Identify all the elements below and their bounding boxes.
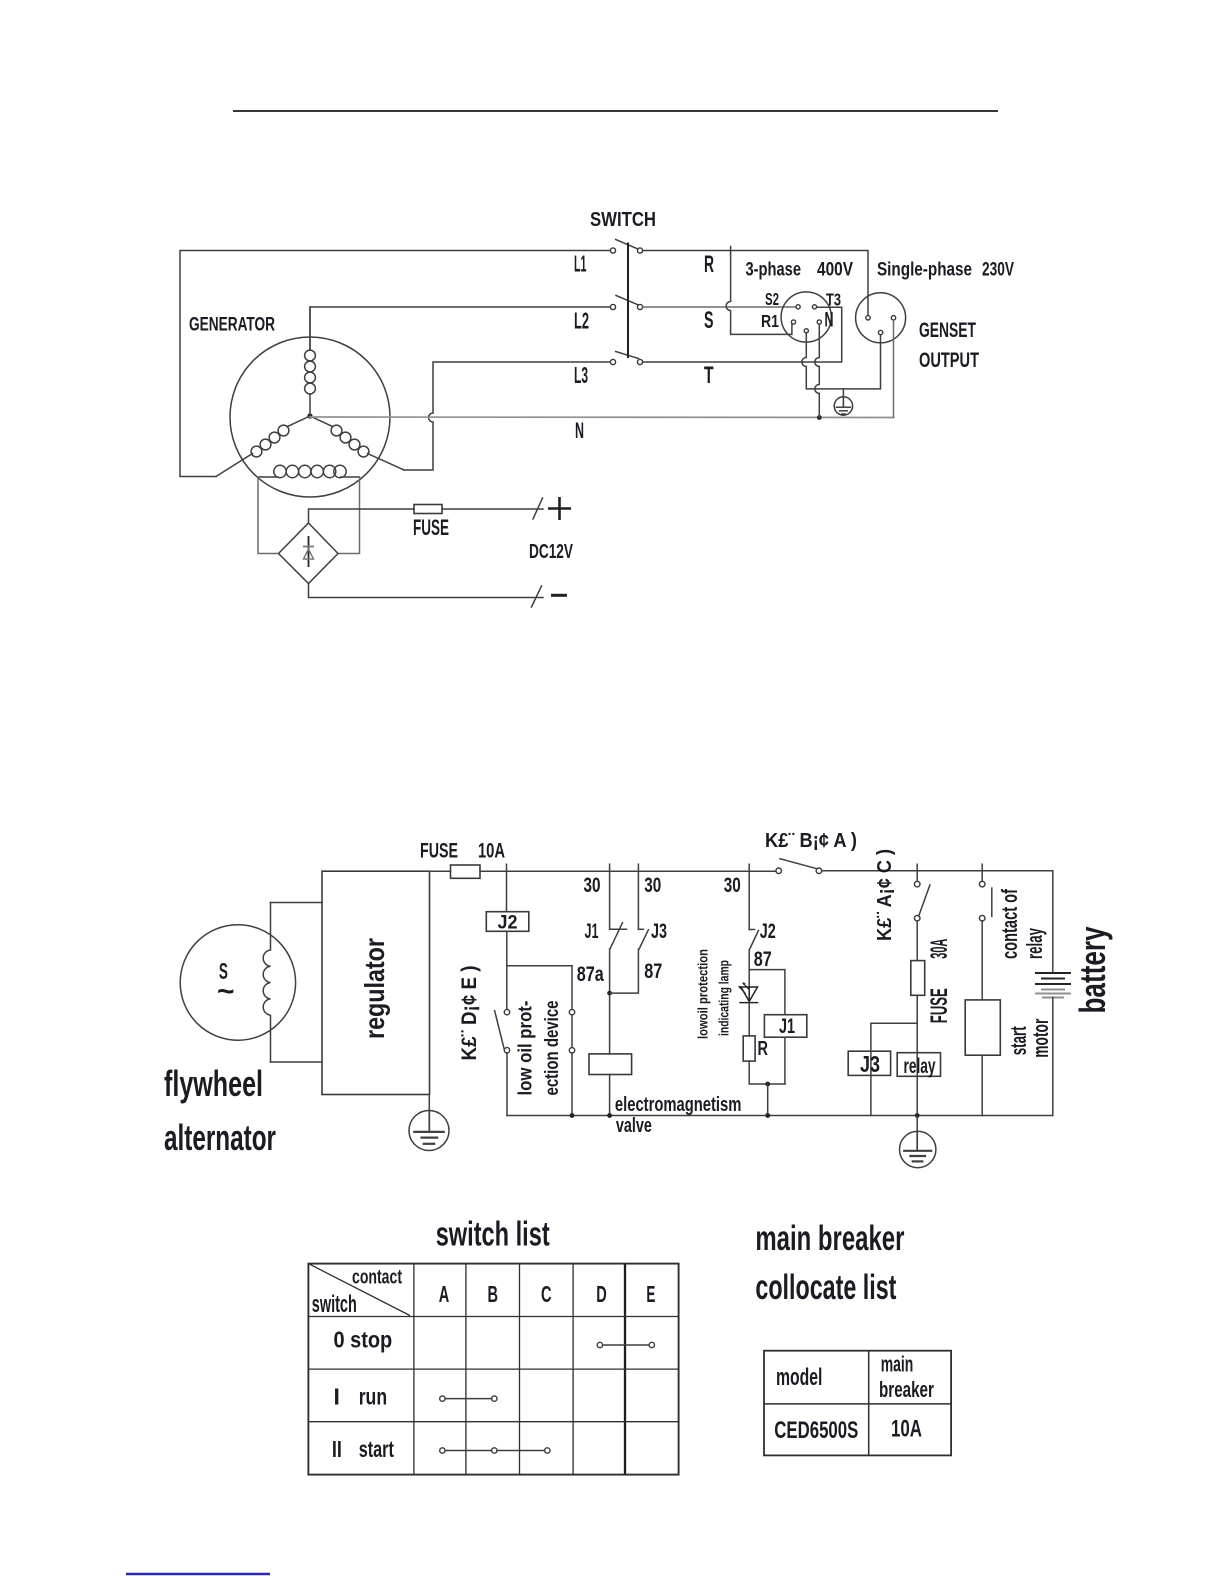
svg-text:J1: J1: [779, 1015, 795, 1038]
node: star point junction: [307, 413, 312, 418]
svg-text:S: S: [704, 307, 714, 334]
svg-text:J3: J3: [860, 1051, 880, 1077]
relay coil J1 box: [764, 1015, 806, 1037]
svg-text:alternator: alternator: [164, 1117, 276, 1158]
svg-text:30A: 30A: [926, 939, 953, 959]
svg-text:flywheel: flywheel: [164, 1063, 263, 1104]
winding W2 lower-left coil: [216, 416, 310, 477]
wire fuse down to rail: [916, 995, 918, 1115]
wire K(A) to fuse: [916, 921, 918, 961]
pin E: [804, 329, 808, 333]
wire battery top: [1052, 871, 1054, 973]
svg-text:contact: contact: [352, 1267, 402, 1289]
wire device down: [571, 1053, 573, 1116]
LED arrows: [738, 982, 749, 993]
svg-text:collocate list: collocate list: [755, 1268, 896, 1307]
svg-text:A: A: [439, 1281, 450, 1307]
winding W3 lower-right coil: [310, 416, 404, 470]
svg-text:motor: motor: [1028, 1018, 1053, 1057]
svg-text:E: E: [646, 1281, 655, 1307]
wire E drop with hop over T: [802, 333, 881, 389]
wire rail to ground: [916, 1116, 918, 1133]
svg-text:87: 87: [754, 947, 772, 971]
svg-text:battery: battery: [1072, 927, 1113, 1014]
wire top rail right: [822, 870, 1053, 872]
svg-text:230V: 230V: [982, 260, 1014, 281]
wire R1 drop with hop over S: [726, 247, 792, 335]
link run A-B: [440, 1396, 497, 1401]
switch K(D) contact: [495, 1009, 510, 1053]
svg-text:regulator: regulator: [359, 938, 390, 1039]
wire L2 from top coil: [310, 307, 611, 350]
svg-text:low oil prot-: low oil prot-: [516, 1001, 537, 1096]
svg-text:10A: 10A: [891, 1416, 922, 1443]
ground E2 symbol: [409, 1111, 449, 1151]
svg-text:J1: J1: [585, 919, 599, 943]
fuse F1 body: [414, 505, 442, 514]
svg-text:lowoil protection: lowoil protection: [694, 949, 710, 1039]
svg-text:S2: S2: [765, 289, 779, 309]
start motor M box: [965, 1000, 1000, 1055]
LED lamp symbol: [740, 970, 758, 1003]
svg-text:R1: R1: [761, 311, 779, 331]
wire R down and parallel bottom: [749, 1061, 785, 1084]
fuse F3 30A body: [911, 961, 925, 996]
svg-text:K£¨ D¡¢ E ): K£¨ D¡¢ E ): [458, 966, 481, 1061]
wire S: [643, 306, 797, 308]
svg-text:C: C: [541, 1281, 552, 1307]
breaker table grid: [764, 1351, 951, 1456]
svg-text:breaker: breaker: [879, 1377, 934, 1402]
node N junction: [817, 415, 822, 420]
wire J1 branch down: [609, 949, 611, 1054]
switch list table grid: [308, 1264, 678, 1475]
svg-text:FUSE: FUSE: [413, 515, 449, 540]
wire battery bottom: [1052, 998, 1054, 1116]
switch S1 tie bar: [627, 244, 629, 358]
wire motor to rail: [981, 1055, 983, 1115]
resistor R body: [743, 1036, 755, 1061]
pin T3: [812, 305, 816, 309]
svg-text:T: T: [704, 362, 714, 389]
wire N from star point: [310, 416, 894, 419]
switch S1 pole L1: [610, 240, 642, 254]
svg-text:87a: 87a: [577, 962, 605, 986]
svg-text:30: 30: [584, 873, 601, 897]
minus sign: [551, 594, 567, 597]
switch S1 pole L3: [610, 352, 642, 365]
wire device top: [571, 966, 573, 1010]
fuse F2 10A body: [451, 865, 481, 878]
svg-text:valve: valve: [616, 1115, 652, 1137]
wire earth tap: [842, 389, 844, 397]
wire J2 box down: [506, 931, 508, 1009]
svg-text:OUTPUT: OUTPUT: [919, 348, 979, 372]
svg-text:R: R: [704, 251, 714, 278]
wire X2 right pin to N: [893, 320, 895, 418]
switch K(A) contact: [914, 881, 930, 921]
pin X2 right: [891, 316, 895, 320]
svg-text:B: B: [487, 1281, 498, 1307]
wire lamp parallel top: [749, 970, 785, 1015]
svg-text:30: 30: [644, 873, 661, 897]
relay coil J3 box: [848, 1051, 890, 1075]
wire T: [643, 307, 842, 362]
svg-text:contact of: contact of: [997, 889, 1022, 959]
wire contact top: [981, 871, 983, 882]
svg-text:electromagnetism: electromagnetism: [615, 1094, 742, 1116]
contact J3 NO: [638, 929, 648, 949]
svg-text:indicating lamp: indicating lamp: [715, 960, 731, 1036]
svg-text:I: I: [334, 1383, 340, 1409]
wire R: [643, 251, 869, 316]
generator G stator circle: [230, 337, 390, 497]
wire DC plus right: [442, 508, 543, 510]
wire J2 contact branch top: [748, 871, 750, 929]
low oil device contact: [569, 1009, 574, 1053]
wire K(D) down: [506, 1053, 508, 1116]
wire J2 coil branch: [506, 871, 508, 912]
svg-text:K£¨ A¡¢ C ): K£¨ A¡¢ C ): [873, 849, 896, 941]
svg-text:30: 30: [724, 873, 741, 897]
socket X2 single-phase circle: [856, 293, 906, 343]
svg-text:main breaker: main breaker: [755, 1219, 904, 1258]
node rail junctions: [570, 1113, 920, 1118]
pin R1: [791, 320, 795, 324]
svg-text:K£¨ B¡¢ A ): K£¨ B¡¢ A ): [765, 829, 857, 852]
wire N-pin drop with hops over T and earth: [815, 324, 820, 417]
svg-text:main: main: [881, 1351, 914, 1376]
wire K(A) top: [916, 871, 918, 882]
wire top rail left: [430, 870, 451, 872]
regulator U1 box: [322, 871, 430, 1094]
svg-text:start: start: [359, 1436, 394, 1462]
svg-text:CED6500S: CED6500S: [774, 1417, 858, 1444]
wire bridge left: [258, 477, 279, 554]
svg-text:DC12V: DC12V: [529, 540, 573, 563]
contact of relay symbol: [979, 881, 991, 921]
switch K(B) contact: [776, 859, 822, 874]
svg-text:model: model: [776, 1364, 822, 1391]
svg-text:N: N: [825, 309, 834, 332]
svg-text:GENSET: GENSET: [919, 318, 976, 342]
svg-text:relay: relay: [904, 1054, 936, 1078]
svg-text:D: D: [596, 1281, 607, 1307]
svg-text:10A: 10A: [478, 840, 505, 863]
relay box: [897, 1053, 940, 1077]
svg-text:87: 87: [644, 959, 662, 983]
battery BT1 plates: [1035, 973, 1071, 998]
wire bottom rail: [507, 1115, 1053, 1117]
winding W4 excitation coil: [258, 465, 360, 477]
wire DC plus: [309, 509, 415, 523]
svg-text:GENERATOR: GENERATOR: [189, 314, 275, 336]
relay coil J2 box: [486, 912, 529, 932]
wire LED to R: [748, 1003, 750, 1036]
wire low-oil top link: [507, 965, 572, 967]
svg-text:switch: switch: [312, 1291, 357, 1318]
svg-text:N: N: [575, 418, 584, 443]
winding flywheel coil: [263, 903, 270, 1063]
wire DC minus: [309, 584, 544, 598]
svg-text:J3: J3: [651, 919, 667, 943]
svg-text:J2: J2: [760, 919, 776, 943]
rectifier D1 bridge diamond: [279, 523, 339, 584]
svg-text:run: run: [359, 1383, 387, 1409]
svg-text:switch list: switch list: [436, 1216, 550, 1254]
svg-text:3-phase: 3-phase: [746, 260, 802, 281]
winding W1 top coil: [305, 307, 316, 416]
junction stubs above rail: [507, 864, 983, 871]
svg-text:SWITCH: SWITCH: [590, 208, 656, 231]
ground E3 symbol: [900, 1131, 936, 1167]
svg-text:FUSE: FUSE: [926, 988, 953, 1023]
link start A-B-C: [440, 1448, 550, 1453]
svg-text:L1: L1: [574, 251, 587, 277]
diode inside bridge: [303, 536, 314, 567]
wire L1 left loop: [180, 251, 611, 477]
plus sign: [548, 497, 571, 520]
pin S2: [796, 305, 800, 309]
bottom blue rule: [126, 1573, 270, 1575]
wire J3 coil branch: [871, 1023, 917, 1115]
svg-text:L3: L3: [574, 362, 588, 388]
terminal slash minus: [532, 586, 542, 607]
pin N: [817, 320, 821, 324]
valve coil Y1 box: [589, 1054, 632, 1075]
wire L3 from W3 with hop over N: [404, 362, 611, 470]
pin X2 left: [866, 316, 870, 320]
svg-text:relay: relay: [1022, 928, 1047, 959]
svg-text:FUSE: FUSE: [420, 840, 458, 863]
node lamp branch junction: [765, 1082, 770, 1087]
svg-text:~: ~: [217, 975, 235, 1008]
socket X1 3-phase circle: [781, 292, 831, 342]
wire J1 box down: [784, 1037, 786, 1084]
pin X2 earth: [878, 330, 882, 334]
wire valve to rail: [609, 1075, 611, 1116]
node 87a junction: [607, 991, 612, 996]
svg-text:0 stop: 0 stop: [334, 1327, 393, 1353]
terminal slash plus: [533, 498, 543, 519]
svg-text:T3: T3: [826, 290, 841, 310]
wire J1 branch top: [609, 871, 611, 929]
wire J3 to node: [610, 949, 639, 993]
wire top rail middle: [480, 870, 776, 872]
wire coil to regulator bottom: [271, 1061, 323, 1063]
flywheel alternator G2 circle: [180, 925, 295, 1040]
wire bridge right: [338, 477, 360, 554]
svg-text:L2: L2: [574, 308, 589, 334]
wire lamp branch to rail: [767, 1084, 769, 1116]
svg-text:ection device: ection device: [542, 1001, 563, 1096]
svg-text:II: II: [332, 1436, 342, 1462]
contact J2 NO: [749, 930, 758, 950]
svg-text:400V: 400V: [817, 260, 853, 281]
svg-text:Single-phase: Single-phase: [877, 260, 972, 281]
top rule: [233, 110, 998, 112]
link stop D-E: [597, 1342, 654, 1347]
ground E1 symbol: [834, 397, 852, 415]
contact J1 NC: [610, 923, 627, 949]
wire contact to motor: [981, 921, 983, 1000]
svg-text:R: R: [758, 1038, 769, 1060]
wire node 87: [748, 950, 750, 970]
wire coil to regulator top: [271, 902, 323, 904]
svg-text:J2: J2: [498, 912, 518, 933]
wire J3 branch top: [637, 871, 639, 929]
switch S1 pole L2: [610, 296, 642, 310]
wire regulator to ground: [428, 1095, 430, 1112]
